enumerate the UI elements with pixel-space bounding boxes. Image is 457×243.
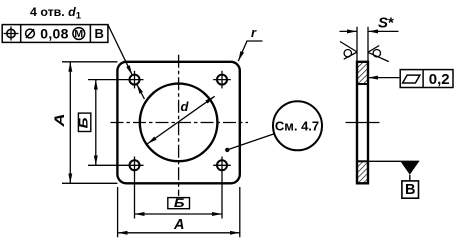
svg-text:См. 4.7: См. 4.7 <box>275 118 319 133</box>
hole bottom-left <box>88 157 144 219</box>
dimension B left (boxed) <box>77 80 96 166</box>
feature control frame <box>2 25 108 43</box>
svg-text:d: d <box>181 99 190 114</box>
hole bottom edge <box>357 160 368 162</box>
svg-text:М: М <box>74 28 83 40</box>
diameter symbol <box>26 29 35 38</box>
svg-text:В: В <box>405 182 415 198</box>
hole top edge <box>357 83 368 85</box>
diameter d dimension <box>147 96 214 144</box>
dimension B bottom (boxed) <box>135 196 223 214</box>
centerline vertical <box>178 54 180 197</box>
svg-text:S*: S* <box>378 15 394 32</box>
flatness leader <box>368 77 400 79</box>
svg-text:Б: Б <box>174 196 185 210</box>
leader from frame to hole <box>108 25 132 76</box>
S* dimension arrows <box>340 30 358 32</box>
central hole d <box>140 84 218 162</box>
hatch top band <box>357 62 368 84</box>
S* extension lines <box>356 27 358 62</box>
dimension A bottom <box>118 187 240 237</box>
svg-text:0,08: 0,08 <box>40 25 68 41</box>
hole bottom-right <box>213 157 231 219</box>
side view section <box>346 62 380 184</box>
roughness symbol left <box>340 42 357 60</box>
front view plate outline <box>117 62 239 184</box>
opposite arrow of hole diameter <box>137 84 145 99</box>
svg-text:0,2: 0,2 <box>429 71 450 88</box>
roughness symbol right <box>368 46 389 62</box>
hole top-left <box>88 71 144 89</box>
datum V triangle <box>400 161 419 175</box>
svg-text:В: В <box>95 26 104 41</box>
hole top-right <box>213 71 231 89</box>
centerline horizontal <box>109 122 248 124</box>
svg-text:Б: Б <box>77 117 91 128</box>
side view outline <box>357 62 368 184</box>
datum V stem <box>409 175 411 181</box>
corner radius r leader <box>238 25 262 61</box>
datum V line <box>368 160 419 162</box>
dimension A left <box>52 62 118 184</box>
M circle modifier <box>73 28 85 41</box>
flatness frame <box>400 70 453 88</box>
position symbol <box>4 27 19 41</box>
svg-text:А: А <box>52 114 67 128</box>
flatness symbol <box>403 75 420 83</box>
datum V box <box>402 181 419 198</box>
side view centerline <box>346 122 380 124</box>
see 4.7 balloon <box>225 101 322 152</box>
svg-text:А: А <box>173 217 184 233</box>
hatch bottom band <box>357 161 368 183</box>
